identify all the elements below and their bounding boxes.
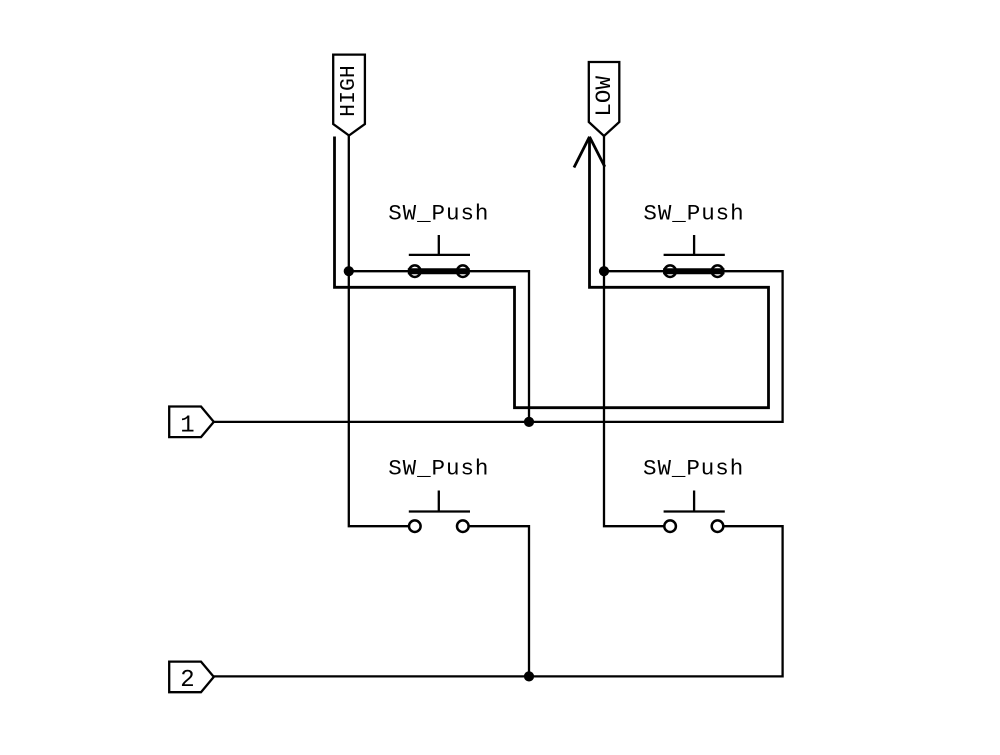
svg-text:1: 1	[180, 413, 194, 440]
wire net 2 from label to SW4 right contact	[214, 526, 783, 676]
wire net 1 from label to SW2 right contact	[214, 271, 783, 422]
junction at net 1 / SW1 right	[524, 417, 534, 427]
switch SW3 (bottom-left, open)	[409, 491, 470, 533]
switch SW1 (top-left, closed)	[408, 235, 470, 277]
switch SW2 (top-right, closed)	[663, 235, 725, 277]
wire SW1 right contact to net 1	[463, 271, 529, 422]
svg-text:SW_Push: SW_Push	[388, 456, 489, 482]
hierarchical label 1	[169, 407, 214, 440]
wire LOW vertical down to lower-right switch	[604, 136, 670, 526]
svg-text:LOW: LOW	[591, 76, 617, 117]
wire junction to SW1 left contact	[349, 270, 415, 272]
wire junction to SW2 left contact	[604, 270, 670, 272]
svg-text:HIGH: HIGH	[337, 65, 361, 117]
switch SW4 (bottom-right, open)	[664, 491, 725, 533]
junction at LOW / SW2 left	[599, 266, 609, 276]
wire SW3 right contact to net 2	[463, 526, 529, 676]
svg-text:SW_Push: SW_Push	[388, 200, 489, 226]
svg-text:SW_Push: SW_Push	[643, 200, 744, 226]
junction at net 2 / SW3 right	[524, 671, 534, 681]
arrowhead on flow line	[574, 137, 605, 168]
net flag LOW	[589, 62, 620, 136]
net flag HIGH	[333, 55, 365, 136]
hierarchical label 2	[169, 662, 214, 694]
junction at HIGH / SW1 left	[344, 266, 354, 276]
svg-text:SW_Push: SW_Push	[643, 456, 744, 482]
wire HIGH vertical down to lower-left switch	[349, 136, 415, 527]
svg-text:2: 2	[180, 667, 194, 694]
graphic flow line (thick polyline from HIGH side to LOW side)	[335, 137, 769, 408]
